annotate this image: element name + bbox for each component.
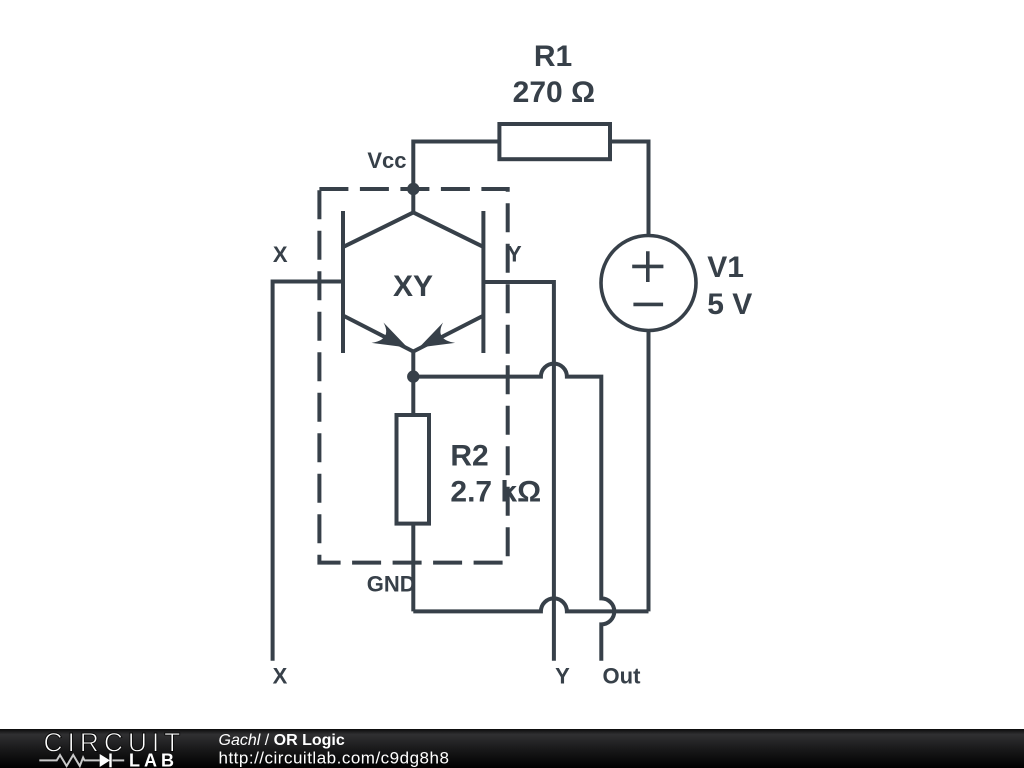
transistor Q2 emitter arrow bbox=[419, 323, 455, 348]
transistor Q1 emitter bbox=[344, 316, 413, 352]
svg-text:Vcc: Vcc bbox=[367, 148, 406, 173]
svg-text:270 Ω: 270 Ω bbox=[513, 76, 595, 109]
transistor Q2 base bar bbox=[481, 211, 485, 353]
wire Vcc node to R1 left bbox=[413, 142, 499, 192]
resistor R1 bbox=[499, 124, 610, 159]
svg-text:Gachl / OR Logic: Gachl / OR Logic bbox=[219, 732, 345, 749]
svg-text:Y: Y bbox=[555, 664, 570, 689]
dashed subcircuit box bbox=[319, 189, 507, 563]
svg-text:Out: Out bbox=[603, 664, 642, 689]
diode symbol in logo bbox=[100, 754, 110, 767]
voltage source V1 bbox=[601, 236, 696, 331]
transistor Q2 collector bbox=[413, 212, 482, 246]
svg-text:LAB: LAB bbox=[129, 751, 178, 768]
transistor Q2 emitter bbox=[413, 316, 482, 352]
svg-text:XY: XY bbox=[393, 270, 433, 303]
resistor R2 bbox=[397, 415, 430, 524]
node Vcc junction dot bbox=[407, 183, 419, 195]
CircuitLab logo resistor-diode squiggle bbox=[39, 755, 124, 766]
transistor Q1 base bar bbox=[341, 211, 345, 353]
svg-text:R2: R2 bbox=[450, 440, 488, 473]
svg-text:R1: R1 bbox=[534, 40, 572, 73]
node emitter junction dot bbox=[407, 370, 419, 382]
svg-text:X: X bbox=[273, 242, 288, 267]
svg-text:2.7 kΩ: 2.7 kΩ bbox=[450, 476, 541, 509]
svg-text:http://circuitlab.com/c9dg8h8: http://circuitlab.com/c9dg8h8 bbox=[219, 749, 450, 768]
wire R2 bottom lead bbox=[411, 524, 415, 612]
wire R2 top lead bbox=[411, 377, 415, 415]
transistor Q1 emitter arrow bbox=[372, 323, 408, 348]
wire R1 right to V1 top bbox=[610, 142, 649, 236]
collector stub from Vcc node bbox=[411, 189, 415, 212]
svg-text:V1: V1 bbox=[707, 251, 744, 284]
footer bar bbox=[0, 729, 1024, 768]
emitter stub to node bbox=[411, 352, 415, 377]
svg-text:GND: GND bbox=[367, 572, 416, 597]
wire X net: base to bottom terminal bbox=[273, 282, 343, 661]
wire Out net: emitter node right (hop over Y), down (hop over GND rail) bbox=[413, 364, 614, 661]
transistor Q1 collector bbox=[344, 212, 413, 246]
wire V1 bottom down to GND rail bbox=[647, 331, 651, 612]
wire Y net: base to bottom terminal bbox=[483, 282, 554, 661]
wire GND rail with hop over Y net bbox=[413, 598, 648, 611]
svg-text:5 V: 5 V bbox=[707, 288, 752, 321]
svg-text:Y: Y bbox=[507, 242, 522, 267]
svg-text:X: X bbox=[273, 664, 288, 689]
transistor pair XY (two NPN sharing collector and emitter) bbox=[343, 189, 483, 377]
